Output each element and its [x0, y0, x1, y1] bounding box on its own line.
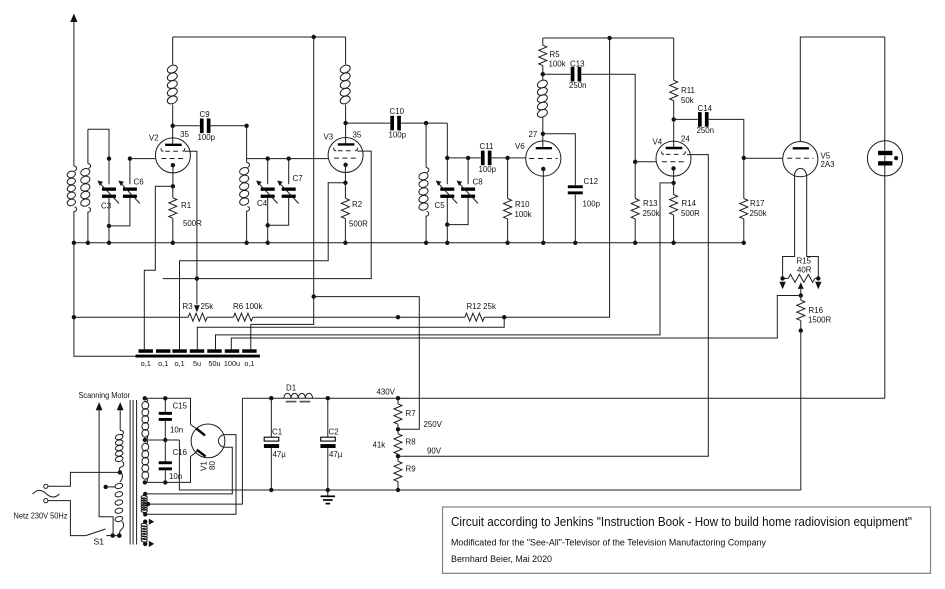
svg-text:47µ: 47µ [273, 450, 287, 459]
wire R15 wiper [798, 282, 804, 289]
svg-text:R3: R3 [183, 302, 194, 311]
capacitor C7 [288, 159, 290, 185]
arrow filament winding lower [149, 541, 154, 547]
svg-text:D1: D1 [286, 384, 296, 393]
wire ground line [179, 440, 800, 490]
svg-text:V2: V2 [149, 133, 159, 142]
svg-text:500R: 500R [681, 209, 700, 218]
resistor R16 [800, 296, 802, 301]
svg-text:C4: C4 [257, 199, 268, 208]
capacitor C10 [346, 122, 391, 124]
capacitor C12 [543, 134, 575, 185]
svg-text:47µ: 47µ [329, 450, 343, 459]
svg-text:Netz 230V 50Hz: Netz 230V 50Hz [14, 512, 68, 521]
svg-text:o,1: o,1 [141, 359, 151, 368]
capacitor C16 [164, 440, 166, 461]
wire V2 cathode [172, 165, 174, 186]
wire V2 screen grid [185, 151, 197, 278]
capacitor C8 [467, 158, 469, 184]
tube V4 [656, 141, 691, 176]
resistor R2 [344, 183, 346, 199]
wire ground rail [74, 242, 744, 244]
svg-text:C14: C14 [698, 104, 713, 113]
tube V1 [191, 424, 225, 458]
svg-text:2A3: 2A3 [821, 160, 836, 169]
coil antenna primary [74, 166, 77, 171]
svg-text:40R: 40R [797, 266, 812, 275]
svg-text:250V: 250V [424, 420, 443, 429]
resistor R14 [673, 183, 675, 195]
wire V4 plate lead [673, 119, 675, 148]
transformer core [129, 400, 131, 545]
svg-text:R14: R14 [682, 199, 697, 208]
capacitor bank bar [136, 355, 260, 358]
wire antenna down to R3 and capacitor bank [74, 243, 136, 356]
antenna [70, 14, 77, 23]
svg-text:100p: 100p [198, 133, 216, 142]
tube V3 [328, 138, 363, 173]
resistor R1 [172, 186, 174, 198]
text box [443, 507, 931, 573]
svg-text:C10: C10 [390, 107, 405, 116]
capacitor C3 [108, 159, 110, 185]
wire HV top to V1 plate [145, 398, 191, 424]
svg-text:R13: R13 [643, 199, 658, 208]
svg-text:o,1: o,1 [158, 359, 168, 368]
svg-text:o,1: o,1 [175, 359, 185, 368]
resistor R3 potentiometer [74, 316, 188, 318]
capacitor C2 [326, 396, 330, 400]
wire V4 cathode [673, 168, 675, 183]
svg-text:80: 80 [208, 461, 217, 470]
svg-text:R9: R9 [406, 465, 417, 474]
svg-text:Modificated for the "See-All"-: Modificated for the "See-All"-Televisor … [451, 538, 766, 549]
resistor R9 [397, 456, 399, 461]
svg-text:C13: C13 [570, 60, 585, 69]
tube V6 [526, 141, 561, 176]
winding HV secondary lower [143, 438, 147, 442]
resistor R5 [542, 38, 544, 45]
svg-text:250n: 250n [569, 81, 587, 90]
wire top rail V2/V3 plate supply [173, 36, 346, 38]
coil V3 plate load [345, 37, 347, 65]
capacitor C14 [674, 118, 698, 120]
wire V5 grid [744, 157, 783, 159]
wire V1 filament bottom lead [145, 447, 232, 494]
svg-text:1500R: 1500R [808, 316, 832, 325]
wire V5 filament [783, 176, 795, 280]
capacitor C6 [129, 159, 131, 185]
capacitor C9 [173, 125, 200, 127]
svg-text:R17: R17 [750, 199, 764, 208]
svg-text:Scanning Motor: Scanning Motor [79, 391, 131, 400]
coil V2 plate load [172, 37, 174, 65]
wire grid line V3 [247, 158, 329, 160]
wire grid of V2 [130, 158, 156, 160]
svg-text:R1: R1 [181, 201, 191, 210]
svg-text:500R: 500R [183, 219, 202, 228]
wire secondary top to tank1 [88, 129, 109, 158]
wire neon lamp to 430V line [884, 166, 886, 399]
svg-text:C6: C6 [134, 178, 145, 187]
svg-text:R16: R16 [809, 306, 824, 315]
resistor R15 [783, 277, 789, 279]
tube V5 [783, 142, 818, 177]
resistor R8 [397, 429, 399, 434]
wire rail2 R5 R11 [543, 37, 674, 39]
svg-text:R6 100k: R6 100k [233, 302, 262, 311]
svg-text:50u: 50u [208, 359, 220, 368]
svg-text:500R: 500R [349, 220, 368, 229]
svg-text:R2: R2 [352, 200, 362, 209]
wire V6 cathode [542, 169, 544, 243]
svg-text:C15: C15 [173, 402, 188, 411]
coil tank2 [246, 126, 248, 163]
coil antenna secondary [87, 129, 89, 163]
svg-text:35: 35 [180, 130, 189, 139]
ground symbol [327, 490, 329, 496]
svg-text:25k: 25k [201, 302, 214, 311]
wire HV bottom to V1 plate2 [145, 457, 191, 483]
wire V5 plate to top rail [800, 37, 885, 142]
capacitor C11 [447, 157, 480, 159]
coil V6 plate load [542, 74, 544, 80]
wire primary tap [104, 485, 108, 489]
lamp neon tube [867, 141, 902, 176]
wire V3 cathode [344, 165, 346, 182]
svg-text:50k: 50k [681, 96, 694, 105]
svg-text:C5: C5 [435, 201, 446, 210]
svg-text:250k: 250k [643, 209, 660, 218]
svg-text:100u: 100u [224, 359, 240, 368]
svg-text:100k: 100k [515, 210, 532, 219]
capacitor tank3 main [446, 123, 448, 184]
wire HT centre tap output [148, 398, 242, 504]
winding HV secondary upper [143, 396, 147, 400]
svg-text:R12 25k: R12 25k [467, 302, 496, 311]
mains ac squiggle [33, 490, 60, 497]
wire R12 to rail2 feed [504, 38, 609, 317]
wire R16 to ground line [800, 331, 802, 490]
svg-text:R11: R11 [681, 86, 695, 95]
resistor R6 [207, 316, 233, 318]
svg-text:C3: C3 [101, 202, 112, 211]
svg-text:S1: S1 [94, 537, 105, 547]
svg-text:27: 27 [529, 130, 538, 139]
wire scanning motor right [117, 402, 124, 410]
wire scanning motor left [96, 402, 103, 410]
svg-text:o,1: o,1 [244, 359, 254, 368]
svg-text:100p: 100p [479, 165, 497, 174]
svg-text:90V: 90V [427, 447, 442, 456]
svg-text:41k: 41k [373, 441, 386, 450]
svg-text:V4: V4 [653, 137, 663, 146]
svg-text:100k: 100k [549, 60, 566, 69]
wire R12 node to 5u bus [197, 317, 504, 349]
svg-text:C12: C12 [584, 177, 598, 186]
winding primary upper [120, 430, 123, 435]
capacitor C13 [543, 73, 571, 75]
terminal mains lower [44, 499, 48, 503]
svg-text:10n: 10n [169, 472, 182, 481]
svg-text:Bernhard Beier, Mai 2020: Bernhard Beier, Mai 2020 [451, 554, 552, 565]
svg-text:R7: R7 [406, 409, 416, 418]
svg-text:R15: R15 [797, 257, 812, 266]
arrow filament winding upper [149, 519, 154, 525]
wire V1 filament top lead [145, 435, 236, 515]
resistor R11 [673, 38, 675, 80]
resistor R7 [396, 396, 400, 400]
wire 250V feed to top rail [251, 37, 314, 349]
wire 430V line [242, 397, 885, 399]
svg-text:V3: V3 [324, 133, 334, 142]
svg-text:430V: 430V [377, 388, 396, 397]
switch S1 [86, 529, 106, 536]
svg-text:C7: C7 [293, 174, 303, 183]
wire 250V corner link [314, 297, 420, 430]
winding output filament 2.5V [143, 520, 147, 524]
wire HV centre tap to ground line [145, 439, 180, 441]
svg-text:100p: 100p [389, 131, 407, 140]
wire R3 wiper arrow [196, 279, 198, 305]
svg-text:10n: 10n [170, 426, 183, 435]
svg-text:C9: C9 [200, 110, 211, 119]
svg-text:250n: 250n [697, 126, 715, 135]
wire 5V winding tap [146, 502, 150, 506]
svg-text:C1: C1 [272, 428, 282, 437]
svg-text:R5: R5 [550, 50, 561, 59]
winding primary lower [120, 472, 123, 482]
resistor R12 [398, 316, 465, 318]
resistor R13 [633, 160, 637, 164]
resistor R17 [742, 156, 746, 160]
winding rectifier filament 5V [143, 492, 147, 496]
svg-text:250k: 250k [750, 209, 767, 218]
capacitor C4 [267, 159, 269, 185]
svg-text:C8: C8 [473, 178, 484, 187]
wire V4 screen grid [398, 155, 708, 457]
svg-text:R10: R10 [515, 200, 530, 209]
coil C5 [425, 123, 427, 167]
resistor R10 [505, 156, 509, 160]
svg-text:V6: V6 [515, 142, 525, 151]
capacitor C15 [163, 396, 167, 400]
svg-text:100p: 100p [583, 200, 601, 209]
svg-text:Circuit according to Jenkins ": Circuit according to Jenkins "Instructio… [451, 514, 912, 529]
svg-text:5u: 5u [193, 359, 201, 368]
wire V3 screen grid [163, 151, 372, 279]
capacitor C1 [269, 396, 273, 400]
svg-text:C2: C2 [329, 428, 339, 437]
svg-text:35: 35 [353, 131, 362, 140]
svg-text:R8: R8 [406, 438, 417, 447]
inductor D1 [284, 393, 313, 398]
terminal mains upper [44, 484, 48, 488]
svg-text:C11: C11 [480, 142, 494, 151]
tube V2 [155, 138, 190, 173]
svg-text:C16: C16 [173, 448, 188, 457]
svg-text:24: 24 [681, 134, 690, 143]
